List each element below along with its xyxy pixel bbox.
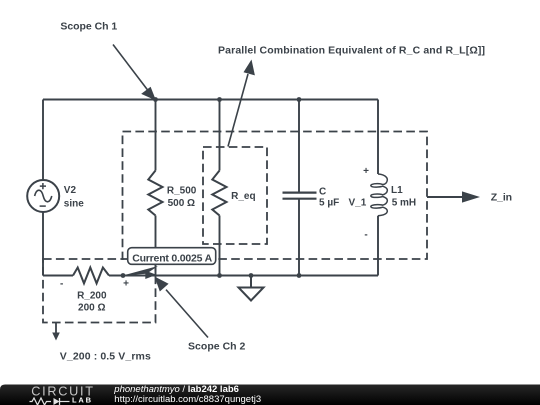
- svg-text:+: +: [363, 166, 369, 177]
- node bottom C: [297, 273, 302, 278]
- label L1: [391, 185, 416, 209]
- node ground: [249, 273, 254, 278]
- svg-text:V_1: V_1: [349, 198, 367, 209]
- label Z_in: [491, 192, 512, 204]
- arrow Scope Ch 2: [155, 277, 209, 338]
- label minus R_200: [60, 278, 63, 289]
- footer logo CIRCUIT: [31, 385, 94, 399]
- label V_200: [60, 351, 151, 363]
- wire left lower: [42, 212, 44, 276]
- svg-text:R_200: R_200: [77, 290, 107, 301]
- inductor L1: [371, 174, 388, 216]
- wire R_500 branch: [155, 100, 157, 276]
- arrow Scope Ch 1: [113, 45, 156, 101]
- wire bottom rail: [43, 275, 378, 277]
- svg-text:Z_in: Z_in: [491, 192, 512, 204]
- label Scope Ch 2: [188, 340, 246, 352]
- capacitor C: [283, 193, 317, 199]
- outer dashed box (parallel equivalent region): [123, 132, 428, 260]
- label R_500: [167, 185, 197, 209]
- svg-text:Parallel Combination Equivalen: Parallel Combination Equivalent of R_C a…: [218, 45, 485, 57]
- svg-text:Current 0.0025 A: Current 0.0025 A: [132, 253, 212, 265]
- resistor R_200: [73, 268, 109, 284]
- label Scope Ch 1: [60, 20, 117, 32]
- label V2: [64, 185, 84, 210]
- label R_eq: [231, 191, 255, 202]
- svg-text:200 Ω: 200 Ω: [78, 303, 105, 314]
- label R_200: [77, 290, 107, 313]
- svg-text:500 Ω: 500 Ω: [168, 198, 195, 209]
- svg-text:http://circuitlab.com/c8837qun: http://circuitlab.com/c8837qungetj3: [114, 394, 261, 405]
- label plus L1: [363, 166, 369, 177]
- wire C branch: [298, 100, 300, 276]
- voltage source V2: [27, 180, 59, 212]
- dashed box R_eq: [203, 147, 267, 244]
- ground: [239, 276, 264, 301]
- wire L1 branch: [377, 100, 379, 276]
- footer title text: [113, 384, 261, 405]
- svg-text:R_500: R_500: [167, 185, 197, 196]
- svg-text:Scope Ch 2: Scope Ch 2: [188, 340, 246, 352]
- label plus R_200: [123, 279, 129, 290]
- svg-text:LAB: LAB: [72, 395, 93, 404]
- node bottom R_eq: [217, 273, 222, 278]
- label V_1: [349, 198, 367, 209]
- svg-text:+: +: [123, 279, 129, 290]
- node bottom R_200: [121, 273, 126, 278]
- svg-text:Scope Ch 1: Scope Ch 1: [60, 20, 117, 32]
- arrow Parallel Combination: [228, 60, 255, 147]
- node top C: [297, 97, 302, 102]
- resistor R_500: [148, 171, 162, 216]
- label minus L1: [364, 230, 367, 241]
- current label callout wedge: [123, 266, 158, 275]
- svg-text:V_200 : 0.5 V_rms: V_200 : 0.5 V_rms: [60, 351, 151, 363]
- current direction arrow: [145, 271, 156, 279]
- current label box: [128, 248, 216, 265]
- svg-text:5 µF: 5 µF: [319, 198, 339, 209]
- wire R_eq branch: [219, 100, 221, 276]
- node top R_eq: [217, 97, 222, 102]
- svg-text:sine: sine: [64, 199, 84, 210]
- dashed box V_200: [43, 259, 156, 323]
- svg-text:5 mH: 5 mH: [392, 198, 416, 209]
- node top R_500: [153, 97, 158, 102]
- arrow V_200 probe: [52, 323, 60, 341]
- footer logo squiggle: [30, 398, 70, 405]
- footer bar: [0, 385, 540, 405]
- label C: [319, 186, 339, 208]
- arrow Z_in: [427, 191, 480, 202]
- svg-text:-: -: [364, 230, 367, 241]
- svg-text:R_eq: R_eq: [231, 191, 255, 202]
- resistor R_eq: [212, 171, 226, 216]
- svg-text:L1: L1: [391, 185, 403, 196]
- wire left upper: [42, 100, 44, 181]
- svg-text:-: -: [60, 278, 63, 289]
- footer logo LAB: [72, 395, 93, 404]
- wire top rail: [43, 99, 378, 101]
- label Parallel Combination: [218, 45, 485, 57]
- svg-text:C: C: [319, 186, 326, 197]
- svg-text:V2: V2: [64, 185, 77, 196]
